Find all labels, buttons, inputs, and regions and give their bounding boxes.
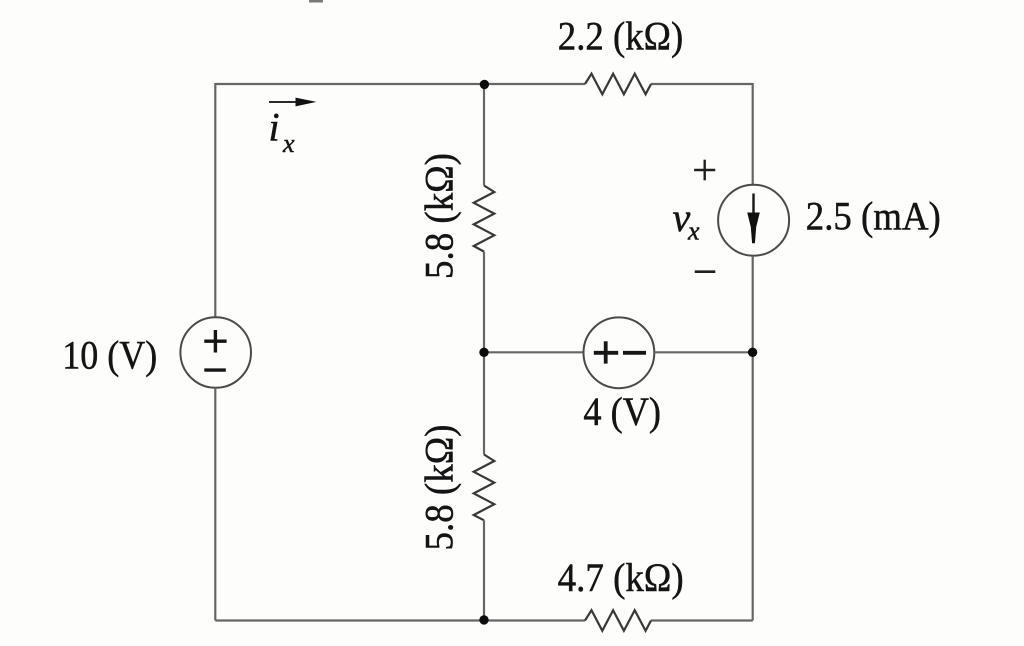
node middle bbox=[479, 348, 488, 357]
wire middle horizontal right bbox=[654, 351, 752, 353]
node bottom bbox=[479, 615, 488, 624]
wire middle vertical: lower resistor to bottom node bbox=[483, 520, 485, 620]
wire left lower bbox=[214, 388, 216, 620]
wire left upper bbox=[214, 83, 216, 318]
voltage source 4 V bbox=[584, 317, 655, 388]
wire middle vertical: mid node to lower resistor bbox=[483, 352, 485, 454]
svg-text:4 (V): 4 (V) bbox=[583, 389, 661, 434]
label ix bbox=[269, 105, 296, 159]
current source 2.5 mA bbox=[718, 185, 789, 256]
svg-text:4.7 (kΩ): 4.7 (kΩ) bbox=[558, 555, 684, 600]
node middle-right bbox=[748, 348, 757, 357]
wire bottom right bbox=[651, 619, 753, 621]
current arrow ix bbox=[269, 98, 317, 107]
wire right lower bbox=[752, 256, 754, 621]
svg-text:5.8 (kΩ): 5.8 (kΩ) bbox=[417, 153, 462, 279]
svg-text:10 (V): 10 (V) bbox=[62, 332, 157, 377]
resistor 5.8 kOhm upper bbox=[474, 186, 495, 252]
wire top left (node A to top node) bbox=[215, 83, 585, 85]
svg-text:2.5 (mA): 2.5 (mA) bbox=[806, 194, 941, 239]
wire middle horizontal left bbox=[484, 351, 584, 353]
svg-text:i: i bbox=[269, 105, 280, 150]
plus polarity of vx bbox=[694, 160, 715, 181]
node top bbox=[480, 80, 489, 89]
wire middle vertical: resistor to mid node bbox=[483, 252, 485, 353]
wire top right (resistor to top-right corner) bbox=[651, 83, 753, 85]
voltage source 10 V bbox=[180, 317, 251, 388]
wire bottom left bbox=[215, 619, 585, 621]
stray mark top edge bbox=[309, 0, 323, 3]
label vx bbox=[673, 195, 701, 246]
resistor 5.8 kOhm lower bbox=[474, 455, 495, 521]
svg-text:2.2 (kΩ): 2.2 (kΩ) bbox=[558, 13, 683, 58]
minus polarity of vx bbox=[695, 270, 716, 273]
svg-text:x: x bbox=[687, 217, 700, 246]
svg-text:x: x bbox=[282, 129, 295, 158]
wire right upper bbox=[752, 83, 754, 185]
resistor 2.2 kOhm bbox=[585, 74, 651, 95]
resistor 4.7 kOhm bbox=[585, 610, 651, 631]
svg-text:5.8 (kΩ): 5.8 (kΩ) bbox=[417, 425, 462, 551]
wire middle vertical: top node to resistor bbox=[483, 84, 485, 186]
